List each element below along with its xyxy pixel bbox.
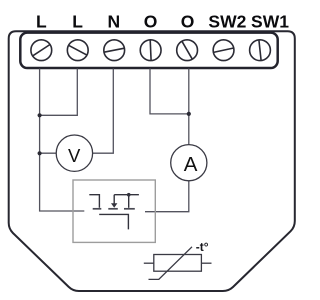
svg-text:SW1: SW1: [251, 11, 289, 31]
svg-text:N: N: [107, 11, 120, 31]
svg-text:O: O: [181, 11, 195, 31]
svg-text:L: L: [36, 11, 47, 31]
svg-text:O: O: [144, 11, 158, 31]
svg-text:A: A: [184, 153, 198, 176]
svg-text:V: V: [68, 145, 81, 166]
svg-text:L: L: [72, 11, 83, 31]
svg-text:-t°: -t°: [196, 240, 209, 254]
svg-text:SW2: SW2: [208, 11, 246, 31]
